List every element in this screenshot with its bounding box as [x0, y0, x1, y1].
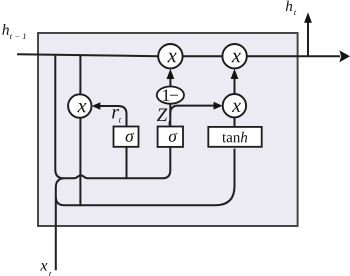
op node: top-right multiplier circle — [222, 44, 246, 68]
arrowhead: h-line right output — [339, 50, 350, 62]
text 1-minus — [163, 89, 178, 101]
wire: h_t output vertical stem — [307, 23, 309, 56]
wire: candidate multiplier up to top-right multiplier — [234, 72, 236, 95]
wire: sigma r gate up and left into reset multiplier — [100, 106, 127, 127]
gate box: sigma z — [158, 127, 183, 147]
wire: sigma z vertical up to 1-minus ellipse — [169, 104, 171, 127]
arrowhead: into candidate multiplier — [214, 102, 223, 110]
wire: h(t-1) top horizontal recurrent line — [17, 54, 340, 56]
label h of h(t-1) — [2, 24, 9, 35]
wire: arc into bus2, bus2 horizontal, arc up into tanh — [56, 149, 235, 206]
label subscript t of h_t — [294, 10, 296, 15]
text sigma z — [169, 133, 178, 142]
label Z — [157, 109, 167, 121]
wire: concat drop from h-line, arc into gate bus1, hop over reset output, arc up into sigma z — [55, 56, 170, 179]
text x in reset multiplier — [77, 103, 86, 112]
label subscript t of Z — [168, 120, 170, 125]
GRU cell body box — [38, 33, 298, 226]
text x in candidate multiplier — [232, 103, 241, 112]
op node: 1-minus ellipse — [157, 87, 184, 104]
label x of x_t — [40, 263, 47, 270]
label subscript t of x_t — [49, 272, 51, 276]
wire: branch from bus1 down to x_t input line — [56, 178, 64, 270]
text tanh — [222, 132, 247, 143]
wire: candidate multiplier down to tanh box — [234, 117, 236, 127]
label h of h_t — [286, 1, 292, 11]
wire: sigma r output drop to bus1 — [126, 147, 128, 178]
text x in top-left multiplier — [167, 53, 176, 62]
arrowhead: h_t up output — [304, 12, 312, 22]
wire: 1-minus ellipse up to top-left multiplier — [169, 72, 171, 88]
text sigma r — [126, 133, 135, 142]
gate box: tanh — [208, 127, 261, 147]
label subscript t of r — [119, 118, 121, 123]
op node: candidate multiplier circle — [223, 94, 246, 117]
text x in top-right multiplier — [232, 53, 241, 62]
label r — [112, 109, 119, 118]
wire: z branch right into candidate multiplier — [170, 106, 214, 114]
op node: reset multiplier circle — [68, 94, 91, 117]
arrowhead: into top-left multiplier — [167, 69, 175, 79]
arrowhead: into top-right multiplier — [231, 69, 239, 79]
op node: top-left multiplier circle — [158, 44, 182, 68]
wire: h(t-1) vertical through reset multiplier down to bus2 — [79, 56, 81, 206]
gate box: sigma r — [114, 127, 139, 147]
arrowhead: into reset multiplier — [92, 102, 101, 110]
label subscript t-1 — [10, 33, 26, 39]
